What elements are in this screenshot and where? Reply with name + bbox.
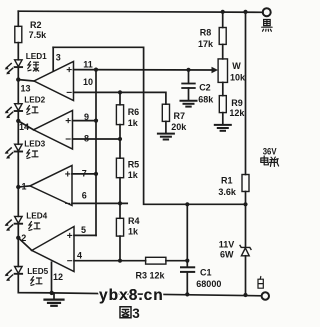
svg-text:3: 3 xyxy=(132,306,140,321)
resistor R6 xyxy=(116,105,123,125)
node top rail to R8 xyxy=(221,10,225,14)
svg-text:1k: 1k xyxy=(128,170,139,180)
node pin 9 xyxy=(94,119,98,123)
wire LED2 to node14 to LED3 xyxy=(17,111,19,144)
pin 3 supply stub xyxy=(52,47,54,71)
hanzi glyphs drawn as strokes xyxy=(27,20,279,318)
svg-text:R6: R6 xyxy=(128,107,140,117)
wire pin 5 xyxy=(74,234,96,236)
svg-text:W: W xyxy=(232,61,241,71)
ground under C2 xyxy=(181,101,197,107)
wire R3 to node xyxy=(166,260,187,262)
wire plus-input rail xyxy=(95,70,97,236)
svg-text:14: 14 xyxy=(19,122,29,132)
node 1 xyxy=(16,185,20,189)
wire right rail top to R1 xyxy=(245,12,247,175)
terminal white (-) xyxy=(262,292,269,299)
svg-text:LED2: LED2 xyxy=(24,96,45,105)
LED LED1 green xyxy=(15,60,23,67)
resistor R7 xyxy=(162,104,169,121)
U1C minus mark xyxy=(66,202,70,204)
svg-text:1k: 1k xyxy=(128,226,139,236)
svg-text:LED4: LED4 xyxy=(26,212,47,221)
comparator U1D xyxy=(32,227,74,272)
LED LED4 red xyxy=(15,216,23,223)
LED4 emission arrows xyxy=(5,220,13,231)
U1D minus mark xyxy=(68,260,72,262)
hanzi ping (bottle) xyxy=(270,157,279,166)
LED5 emission arrows xyxy=(5,270,13,281)
potentiometer W xyxy=(218,59,227,83)
LED2 emission arrows xyxy=(5,107,13,118)
svg-text:C2: C2 xyxy=(199,83,211,93)
wire pin 11 noninverting line to W wiper xyxy=(74,69,213,71)
svg-text:R7: R7 xyxy=(174,111,186,121)
node top rail to right rail xyxy=(243,10,247,14)
ground under R9 xyxy=(215,125,231,131)
resistor R8 xyxy=(219,28,226,45)
hanzi tu (figure) for caption xyxy=(120,307,131,318)
node pin12 / ground xyxy=(50,291,54,295)
wire zener to bottom rail xyxy=(245,256,247,295)
wire R2 top lead xyxy=(17,11,19,26)
svg-text:68000: 68000 xyxy=(196,279,221,289)
wire LED1 to node13 to LED2 xyxy=(17,67,19,104)
svg-text:3.6k: 3.6k xyxy=(218,187,237,197)
wiper arrowhead xyxy=(212,67,219,73)
node 13 xyxy=(16,77,20,81)
node pin4 / R4 bottom xyxy=(118,259,122,263)
wire LED3 to node1 to LED4 xyxy=(17,152,19,217)
svg-text:R3 12k: R3 12k xyxy=(136,270,166,280)
hanzi black at top terminal xyxy=(262,20,272,32)
hanzi red for LED5 xyxy=(31,277,42,286)
svg-text:8: 8 xyxy=(84,133,89,143)
svg-text:R2: R2 xyxy=(30,20,42,30)
svg-text:LED3: LED3 xyxy=(24,139,45,148)
node pin 7 xyxy=(94,172,98,176)
comparator U1C xyxy=(30,166,72,206)
wire pin 4 line through R3 xyxy=(74,260,146,262)
capacitor C1 xyxy=(181,266,194,268)
hanzi white at bottom terminal xyxy=(258,277,263,289)
wire LED5 to bottom rail xyxy=(18,274,51,293)
capacitor C2 xyxy=(188,70,190,84)
svg-text:4: 4 xyxy=(77,250,82,260)
svg-text:R8: R8 xyxy=(200,28,212,38)
svg-text:17k: 17k xyxy=(198,39,214,49)
node pin6 / divider xyxy=(118,201,122,205)
svg-text:R1: R1 xyxy=(221,176,233,186)
U1A minus mark xyxy=(67,91,71,93)
wire LED4 to node2 to LED5 xyxy=(17,224,19,267)
node pin8 / divider xyxy=(118,137,122,141)
LED1 emission arrows xyxy=(5,64,13,75)
comparator U1B xyxy=(34,111,73,150)
wire R1 to zener xyxy=(245,192,247,248)
node zener bottom xyxy=(243,293,247,297)
resistor R3 xyxy=(146,257,166,264)
svg-text:11V: 11V xyxy=(219,239,235,249)
divider column wires xyxy=(119,92,121,260)
wire C1 branch xyxy=(186,204,188,267)
hanzi dian (electric) xyxy=(261,156,269,165)
resistor R1 xyxy=(242,175,249,192)
svg-text:LED5: LED5 xyxy=(27,267,48,276)
svg-text:1k: 1k xyxy=(128,118,139,128)
node V+ / zener xyxy=(243,202,247,206)
wire top positive rail xyxy=(18,11,263,12)
node pin11 / plus rail xyxy=(94,68,98,72)
node C1 bottom xyxy=(185,292,189,296)
wire pin 8 xyxy=(73,138,121,140)
wire R8 to W xyxy=(222,44,224,59)
resistor R5 xyxy=(116,158,123,178)
svg-text:7.5k: 7.5k xyxy=(29,30,48,40)
node pin10 / R6 top xyxy=(118,90,122,94)
node 14 xyxy=(16,119,20,123)
U1B minus mark xyxy=(66,138,70,140)
resistor R2 xyxy=(15,26,22,42)
U1A output wire to node 13 xyxy=(18,80,34,81)
svg-text:36V: 36V xyxy=(263,147,277,157)
zener diode VD 11V xyxy=(240,245,251,255)
U1A plus mark xyxy=(67,68,71,72)
svg-text:LED1: LED1 xyxy=(26,52,47,61)
U1C plus mark xyxy=(66,172,70,176)
svg-text:C1: C1 xyxy=(200,268,212,278)
resistor R4 xyxy=(116,218,123,236)
wire R2 to LED1 xyxy=(17,43,19,60)
svg-text:R4: R4 xyxy=(128,216,140,226)
wire bottom rail xyxy=(52,293,262,296)
U1D output wire to node 2 xyxy=(18,238,32,251)
pin 12 ground stub xyxy=(51,262,53,293)
ground main xyxy=(53,293,55,299)
svg-text:6: 6 xyxy=(82,190,87,200)
wire R9 to ground xyxy=(222,113,224,125)
svg-text:12: 12 xyxy=(53,272,63,282)
svg-text:12k: 12k xyxy=(229,108,245,118)
hanzi green for LED1 xyxy=(28,62,39,72)
hanzi red for LED3 xyxy=(27,150,38,159)
U1D plus mark xyxy=(68,233,72,237)
svg-text:13: 13 xyxy=(21,83,31,93)
wire V+ pin3 run xyxy=(53,47,245,204)
U1B plus mark xyxy=(66,119,70,123)
svg-text:9: 9 xyxy=(84,112,89,122)
svg-text:2: 2 xyxy=(21,233,26,243)
svg-text:6W: 6W xyxy=(220,249,234,259)
wire R8 top stub xyxy=(222,12,224,28)
comparator U1A xyxy=(34,62,74,101)
svg-text:7: 7 xyxy=(82,169,87,179)
wire pin 6 xyxy=(72,202,127,204)
resistor R9 xyxy=(219,96,226,113)
svg-text:R5: R5 xyxy=(128,160,140,170)
svg-text:10: 10 xyxy=(83,77,93,87)
svg-text:3: 3 xyxy=(56,52,61,62)
node pin11 / C2 xyxy=(186,68,190,72)
hanzi red for LED2 xyxy=(27,106,38,115)
svg-text:5: 5 xyxy=(81,225,86,235)
wire pin 9 xyxy=(73,120,97,122)
svg-text:10k: 10k xyxy=(230,72,246,82)
wire R7 to ground xyxy=(165,121,167,133)
U1C output wire to node 1 xyxy=(18,186,30,187)
terminal black (+) xyxy=(263,8,271,16)
svg-text:11: 11 xyxy=(83,59,93,69)
hanzi red for LED4 xyxy=(29,222,40,231)
wire pin 10 to R6 top and R7 xyxy=(74,92,166,104)
LED LED2 red xyxy=(15,104,23,111)
node V+ / C1 branch xyxy=(185,202,189,206)
ground under R7 xyxy=(158,134,174,140)
node 2 xyxy=(16,236,20,240)
LED3 emission arrows xyxy=(5,148,13,159)
svg-text:ybx8.cn: ybx8.cn xyxy=(99,287,164,304)
svg-text:1: 1 xyxy=(22,181,27,191)
U1B output wire to node 14 xyxy=(18,121,33,130)
LED LED3 red xyxy=(15,144,23,151)
node R3 / C1 xyxy=(185,259,189,263)
wire pin 7 xyxy=(72,173,96,175)
LED LED5 red xyxy=(15,267,23,274)
svg-text:20k: 20k xyxy=(171,122,187,132)
wire W to R9 xyxy=(222,82,224,95)
svg-text:68k: 68k xyxy=(198,94,214,104)
svg-text:R9: R9 xyxy=(231,98,243,108)
